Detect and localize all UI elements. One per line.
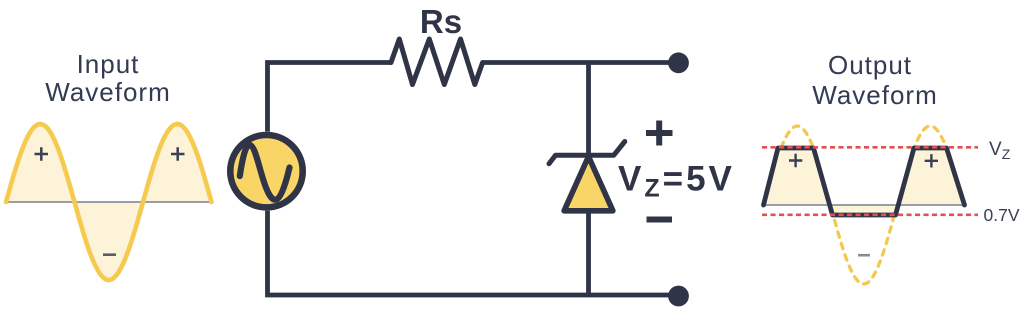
- wire left bottom (source to bottom wire): [268, 211, 589, 295]
- input plus mark 1: [35, 147, 49, 160]
- AC source V1 circle: [230, 135, 302, 207]
- input minus mark: [103, 253, 116, 256]
- wire top (source to resistor): [268, 63, 392, 132]
- input waveform area fill: [6, 124, 212, 280]
- svg-text:Output: Output: [828, 50, 912, 80]
- zener diode D1 triangle: [564, 157, 613, 211]
- output zero baseline: [763, 204, 964, 206]
- output original sine (dashed, clipped regions): [764, 126, 964, 284]
- svg-text:VZ: VZ: [989, 139, 1011, 162]
- output minus mark: [858, 254, 870, 257]
- output plus mark 1: [789, 154, 802, 167]
- input waveform baseline: [6, 201, 212, 203]
- wire zener branch upper: [586, 63, 591, 156]
- input plus mark 2: [171, 147, 185, 160]
- wire zener branch lower: [586, 211, 591, 295]
- AC source sine symbol: [240, 145, 290, 200]
- svg-text:Input: Input: [77, 49, 140, 79]
- output clipped area fill: [764, 148, 965, 215]
- label plus (zener anode polarity): [646, 121, 673, 146]
- input waveform sine curve: [6, 124, 212, 280]
- output clipped waveform trace: [764, 148, 965, 215]
- wire bottom (branch to bottom-right node): [588, 293, 670, 298]
- svg-text:VZ=5V: VZ=5V: [618, 160, 735, 203]
- 0.7V clip level line (red dashed): [762, 213, 978, 216]
- zener diode D1 cathode bar: [549, 142, 625, 164]
- svg-text:Rs: Rs: [420, 3, 462, 40]
- svg-text:Waveform: Waveform: [45, 77, 171, 107]
- terminal node top-right: [668, 52, 689, 73]
- Vz clip level line (red dashed): [762, 146, 978, 149]
- svg-text:0.7V: 0.7V: [984, 205, 1020, 225]
- output plus mark 2: [925, 154, 938, 167]
- resistor R_s zigzag: [391, 39, 483, 85]
- wire top (resistor to top-right node): [483, 60, 670, 65]
- terminal node bottom-right: [668, 286, 689, 307]
- svg-text:Waveform: Waveform: [812, 80, 938, 110]
- label minus (zener cathode polarity): [647, 217, 673, 223]
